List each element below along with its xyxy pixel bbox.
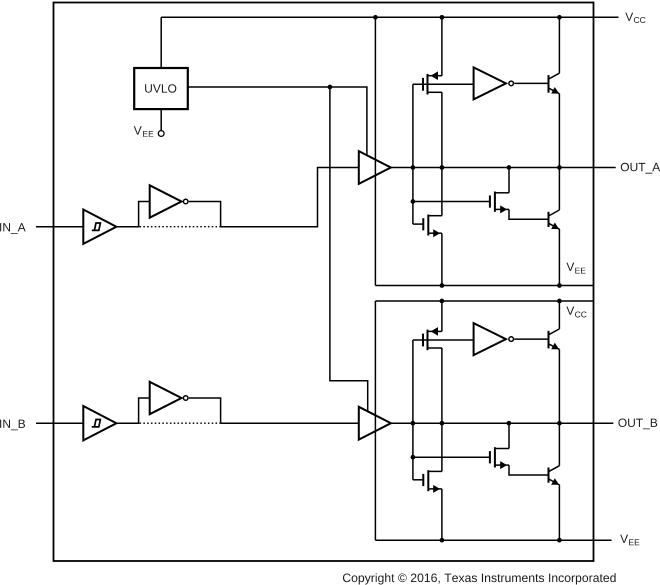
wire PMOS B gate / inverter input	[413, 339, 474, 341]
block A V_CC rail wire	[161, 16, 618, 18]
V_CC pin label (top right)	[625, 13, 645, 23]
schmitt trigger A	[83, 210, 116, 244]
wire IN_B pin to schmitt trigger input	[36, 422, 83, 424]
wire inverter A output to main line	[189, 202, 221, 227]
driver A output buffer	[359, 151, 391, 184]
dotted bypass wire A	[140, 226, 221, 228]
outer IC boundary box	[54, 3, 594, 562]
nmos A pull-down transistor	[423, 215, 442, 238]
wire driver A output / OUT_A line	[391, 167, 616, 169]
wire npn B2 collector to OUT	[558, 423, 560, 466]
wire pmos A source to V_CC rail	[441, 17, 443, 75]
copyright notice	[343, 573, 616, 584]
dotted bypass wire B	[140, 422, 221, 424]
pmos A pull-up transistor	[423, 71, 442, 94]
node V_CC label block B	[566, 307, 586, 318]
wire PMOS A gate / inverter input	[413, 83, 474, 85]
node OUT_A junctions	[411, 165, 562, 170]
npn A2 lower transistor	[549, 210, 560, 229]
inverter B (input stage)	[150, 382, 188, 414]
wire UVLO V_EE stub	[160, 109, 162, 130]
wire npn A2 emitter to V_EE rail	[558, 229, 560, 286]
wire pmos B source to V_CC rail	[441, 301, 443, 331]
wire NMOS2 B gate	[413, 456, 490, 458]
node OUT_B junctions	[411, 421, 562, 426]
wire inverter A input branch	[139, 202, 150, 227]
nmos B2 small transistor	[490, 447, 509, 469]
IN_A pin label	[0, 223, 26, 234]
wire nmos A2 source to npn A2 base	[509, 209, 549, 219]
pmos B pull-up transistor	[423, 327, 442, 350]
UVLO V_EE label	[134, 126, 154, 137]
node UVLO output branch	[328, 85, 333, 90]
npn B1 upper transistor	[549, 329, 560, 350]
inverter A2 (npn pre-driver)	[474, 67, 514, 99]
driver B output buffer	[359, 407, 391, 440]
wire pmos B drain to OUT	[441, 348, 443, 423]
wire npn A2 collector to OUT	[558, 168, 560, 211]
OUT_B pin label	[618, 419, 657, 430]
wire NMOS1 A gate	[413, 223, 423, 225]
wire UVLO output to driver A enable	[188, 87, 367, 155]
npn B2 lower transistor	[549, 466, 560, 485]
UVLO block U1	[134, 68, 188, 109]
wire pmos A drain to OUT	[441, 92, 443, 167]
wire npn B1 collector to V_CC rail	[558, 301, 560, 329]
OUT_A pin label	[621, 163, 660, 174]
wire inverter B2 output to npn base	[514, 338, 548, 340]
wire nmos B source to V_EE rail	[441, 489, 443, 540]
wire driver B output / OUT_B line	[391, 422, 613, 424]
wire inverter B output to main line	[189, 398, 221, 423]
wire UVLO output to driver B enable	[330, 87, 368, 411]
wire nmos A source to V_EE rail	[441, 233, 443, 285]
wire UVLO to V_CC rail	[160, 17, 162, 68]
node block B V_CC rail junctions	[440, 299, 562, 304]
block B left edge wire	[374, 301, 376, 540]
wire npn A1 emitter to OUT	[558, 94, 560, 168]
wire inverter B input branch	[139, 398, 150, 423]
wire schmitt A output	[116, 226, 139, 228]
wire nmos B2 drain to OUT	[508, 423, 510, 448]
wire gate bus B vertical	[412, 340, 414, 480]
wire nmos A drain to OUT	[441, 168, 443, 216]
block B V_CC rail wire	[375, 300, 593, 302]
wire npn B1 emitter to OUT	[558, 349, 560, 423]
V_EE pin label (bottom right)	[620, 535, 639, 546]
wire gate bus A vertical	[412, 84, 414, 224]
npn A1 upper transistor	[549, 73, 560, 94]
node V_CC rail junctions	[373, 15, 562, 20]
wire IN_A pin to schmitt trigger input	[36, 226, 83, 228]
inverter B2 (npn pre-driver)	[474, 323, 514, 355]
wire npn A1 collector to V_CC rail	[558, 17, 560, 73]
node V_EE label block A	[566, 263, 585, 274]
IN_B pin label	[0, 420, 25, 431]
wire nmos B drain to OUT	[441, 423, 443, 471]
wire schmitt B output	[116, 422, 139, 424]
node block B V_EE rail junctions	[440, 538, 562, 543]
block B V_EE rail wire	[375, 539, 611, 541]
node gate bus B at NMOS2 gate	[411, 455, 416, 460]
wire NMOS1 B gate	[413, 479, 423, 481]
wire inverter A2 output to npn base	[514, 82, 548, 84]
UVLO V_EE open pin	[158, 131, 164, 137]
node gate bus A at NMOS2 gate	[411, 199, 416, 204]
wire input B to driver B	[221, 422, 359, 424]
wire NMOS2 A gate	[413, 201, 490, 203]
nmos B pull-down transistor	[423, 470, 442, 493]
block A V_EE rail wire	[375, 285, 593, 287]
schmitt trigger B	[83, 406, 116, 440]
node block A V_EE rail junctions	[440, 283, 562, 288]
wire nmos A2 drain to OUT	[508, 168, 510, 193]
wire input A to driver A (with jog up)	[221, 168, 359, 227]
wire nmos B2 source to npn B2 base	[509, 465, 549, 475]
nmos A2 small transistor	[490, 192, 509, 214]
wire npn B2 emitter to V_EE rail	[558, 485, 560, 541]
block A left edge wire	[374, 17, 376, 285]
inverter A (input stage)	[150, 185, 188, 217]
